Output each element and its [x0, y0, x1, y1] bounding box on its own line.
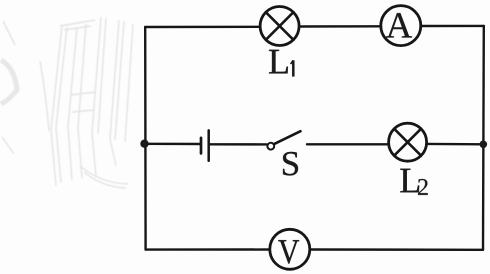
wire: switch to lamp L2	[307, 143, 389, 145]
voltmeter V	[270, 229, 310, 269]
wire: right vertical side	[482, 26, 485, 250]
wire: battery to switch	[210, 143, 267, 145]
label V (voltmeter)	[278, 240, 299, 263]
label S (switch)	[283, 152, 298, 176]
switch S	[267, 131, 300, 149]
label L1 (lamp L1)	[269, 50, 293, 77]
label A (ammeter)	[386, 13, 412, 37]
wire: lamp L1 to ammeter	[299, 25, 381, 28]
wire: ammeter to top-right corner	[421, 25, 484, 28]
wire: left vertical side	[144, 27, 147, 250]
node: left junction	[140, 140, 148, 148]
node: right junction	[480, 141, 488, 149]
wire: voltmeter to bottom-right corner	[310, 248, 483, 251]
lamp L1	[260, 7, 299, 46]
wire: left junction to battery	[145, 143, 200, 146]
battery (cell)	[201, 130, 209, 160]
wire: bottom side, left corner to voltmeter	[146, 248, 270, 251]
lamp L2	[389, 123, 427, 161]
faint scanner watermark strokes (decorative)	[1, 17, 133, 188]
ammeter A	[381, 6, 421, 46]
wire: top side, left corner to lamp L1	[145, 26, 260, 29]
wire: lamp L2 to right junction	[427, 143, 484, 146]
label L2 (lamp L2)	[400, 169, 427, 195]
